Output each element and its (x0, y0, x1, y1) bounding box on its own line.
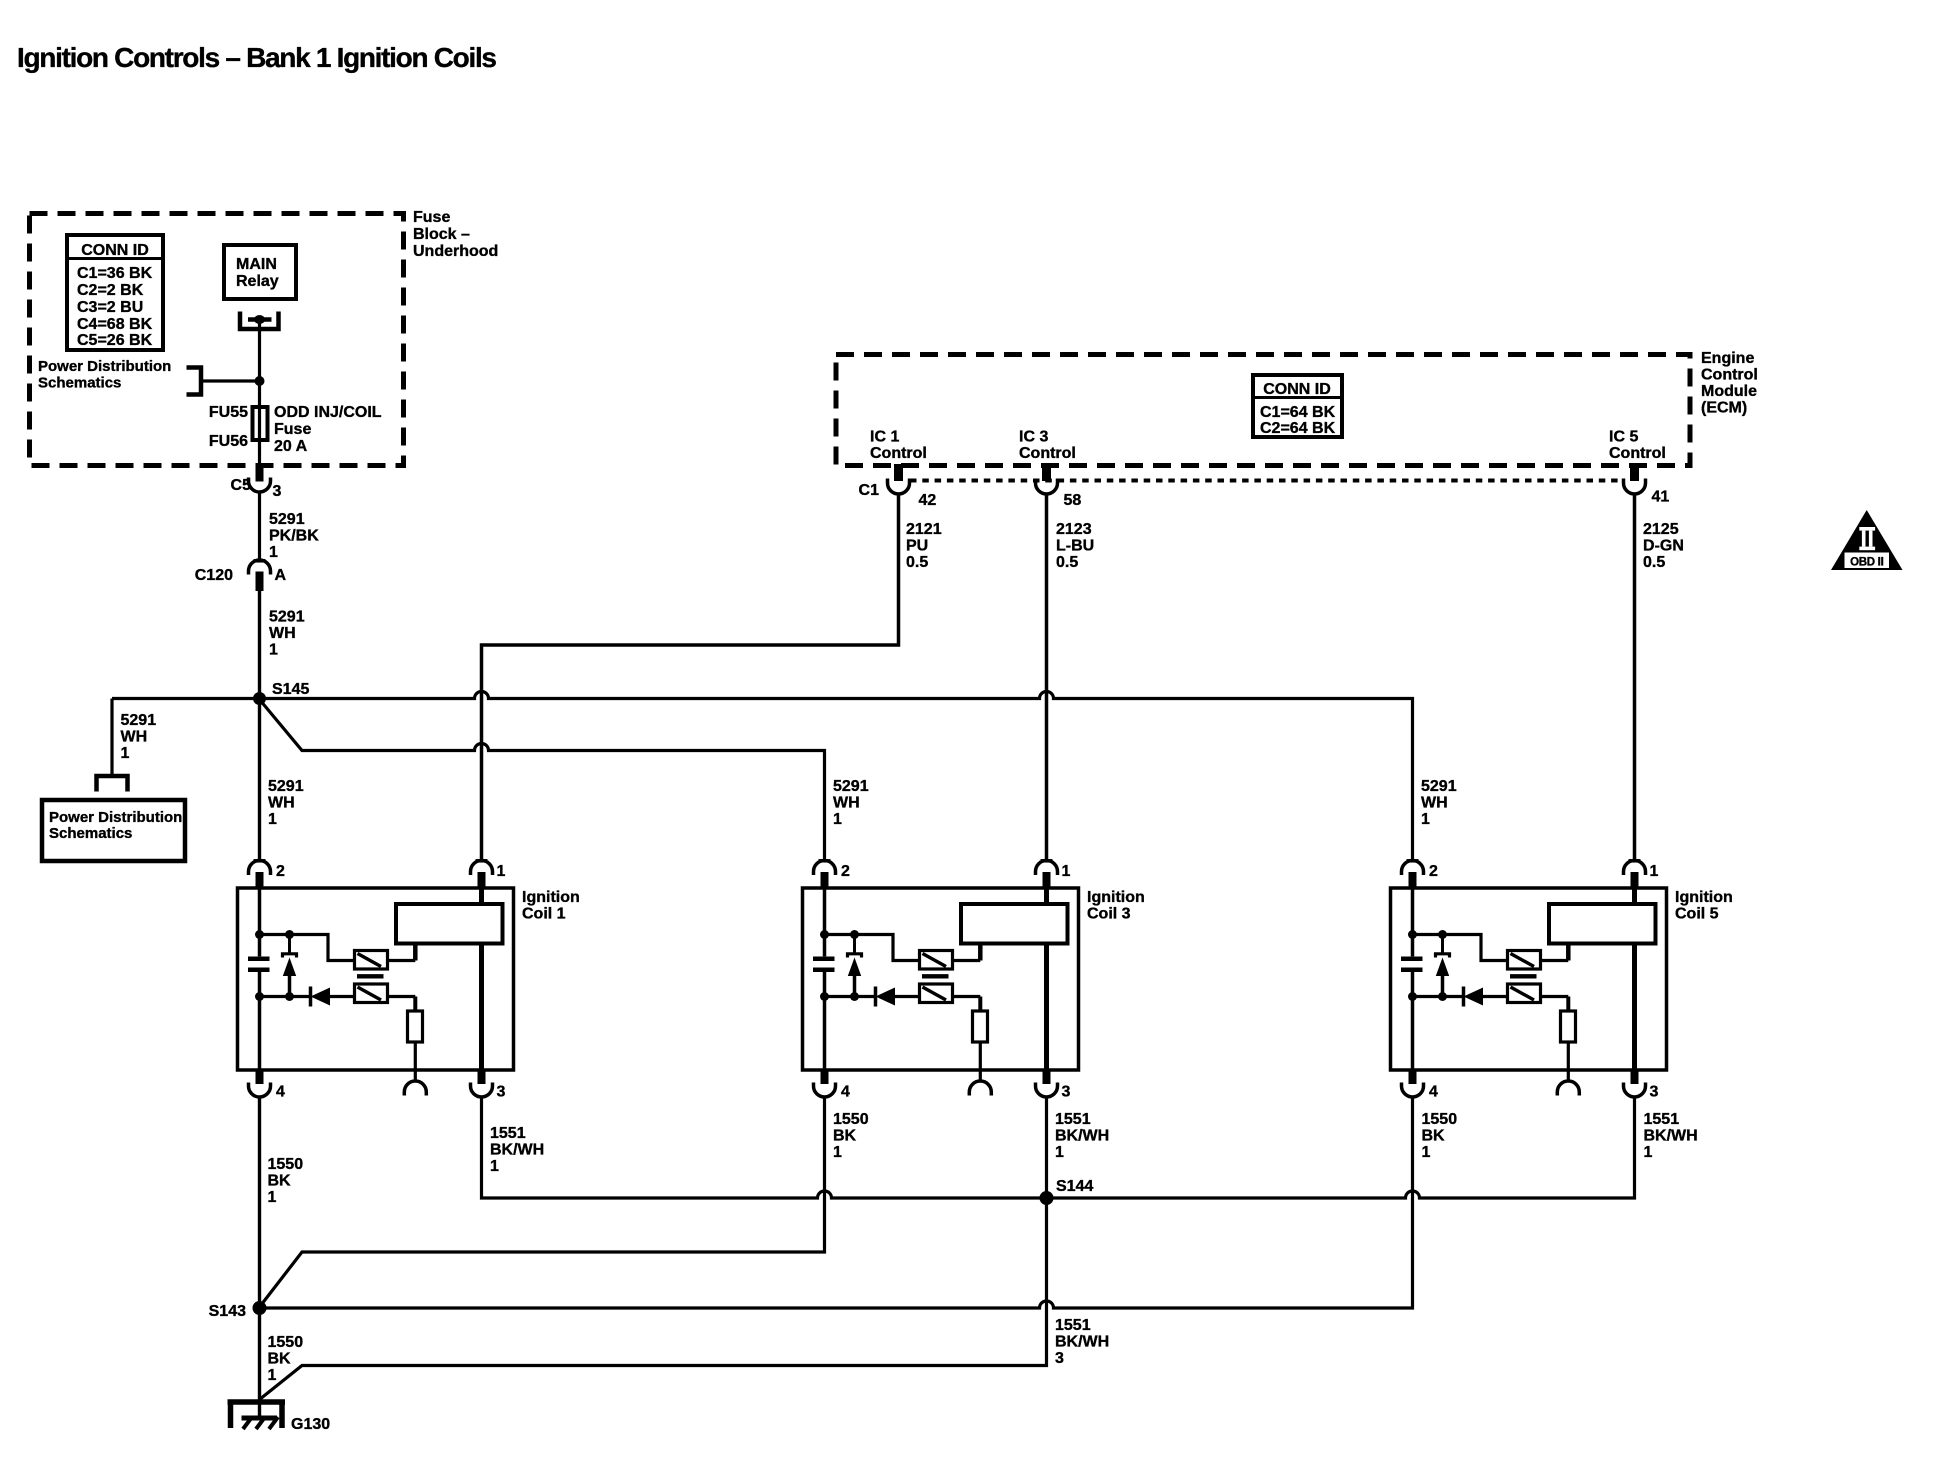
svg-text:Underhood: Underhood (413, 243, 498, 260)
svg-text:ODD INJ/COIL: ODD INJ/COIL (274, 404, 382, 421)
svg-text:2121: 2121 (906, 521, 942, 538)
svg-text:C2=64 BK: C2=64 BK (1260, 420, 1336, 437)
svg-text:D-GN: D-GN (1643, 538, 1684, 555)
svg-text:2: 2 (841, 863, 850, 880)
svg-text:5291: 5291 (833, 778, 869, 795)
svg-text:Ignition: Ignition (522, 889, 580, 906)
svg-text:Control: Control (1609, 445, 1666, 462)
svg-text:WH: WH (1421, 795, 1448, 812)
svg-text:Control: Control (870, 445, 927, 462)
svg-text:OBD II: OBD II (1850, 557, 1883, 569)
svg-text:Module: Module (1701, 383, 1757, 400)
svg-text:2123: 2123 (1056, 521, 1092, 538)
svg-text:0.5: 0.5 (906, 554, 928, 571)
svg-text:A: A (275, 567, 287, 584)
svg-text:1: 1 (268, 1189, 277, 1206)
svg-text:IC 1: IC 1 (870, 429, 899, 446)
svg-text:BK/WH: BK/WH (490, 1142, 544, 1159)
svg-text:2: 2 (1429, 863, 1438, 880)
svg-text:5291: 5291 (269, 511, 305, 528)
svg-text:FU56: FU56 (209, 433, 248, 450)
svg-text:FU55: FU55 (209, 404, 248, 421)
svg-text:PU: PU (906, 538, 928, 555)
svg-text:1: 1 (269, 544, 278, 561)
svg-text:1550: 1550 (268, 1334, 304, 1351)
svg-text:1: 1 (268, 1367, 277, 1384)
svg-text:PK/BK: PK/BK (269, 528, 319, 545)
svg-text:Ignition: Ignition (1087, 889, 1145, 906)
svg-text:42: 42 (919, 492, 937, 509)
svg-text:3: 3 (497, 1084, 506, 1101)
svg-text:Ignition Controls – Bank 1 Ign: Ignition Controls – Bank 1 Ignition Coil… (17, 42, 496, 73)
svg-text:G130: G130 (291, 1416, 330, 1433)
svg-text:0.5: 0.5 (1056, 554, 1078, 571)
svg-text:Relay: Relay (236, 273, 279, 290)
svg-text:Fuse: Fuse (413, 209, 450, 226)
svg-text:4: 4 (1429, 1084, 1438, 1101)
svg-text:4: 4 (841, 1084, 850, 1101)
svg-text:Schematics: Schematics (38, 375, 121, 392)
svg-text:1551: 1551 (1644, 1111, 1680, 1128)
svg-text:BK: BK (833, 1128, 857, 1145)
svg-text:Ignition: Ignition (1675, 889, 1733, 906)
svg-text:3: 3 (1650, 1084, 1659, 1101)
svg-text:2125: 2125 (1643, 521, 1679, 538)
svg-text:C120: C120 (195, 567, 233, 584)
svg-text:S145: S145 (272, 681, 309, 698)
svg-text:1: 1 (1422, 1144, 1431, 1161)
svg-text:WH: WH (121, 729, 148, 746)
svg-text:BK/WH: BK/WH (1055, 1128, 1109, 1145)
svg-text:1: 1 (490, 1158, 499, 1175)
svg-text:Power Distribution: Power Distribution (38, 358, 171, 375)
svg-text:1551: 1551 (1055, 1317, 1091, 1334)
svg-text:C5=26 BK: C5=26 BK (77, 332, 153, 349)
svg-text:Control: Control (1019, 445, 1076, 462)
svg-text:IC 3: IC 3 (1019, 429, 1048, 446)
svg-text:1: 1 (1421, 811, 1430, 828)
svg-text:1551: 1551 (1055, 1111, 1091, 1128)
svg-text:BK/WH: BK/WH (1055, 1334, 1109, 1351)
svg-text:1: 1 (121, 745, 130, 762)
svg-text:1551: 1551 (490, 1125, 526, 1142)
svg-text:S143: S143 (209, 1303, 246, 1320)
svg-text:(ECM): (ECM) (1701, 400, 1747, 417)
svg-text:20 A: 20 A (274, 438, 308, 455)
svg-text:S144: S144 (1056, 1178, 1093, 1195)
svg-text:3: 3 (1055, 1350, 1064, 1367)
svg-text:4: 4 (276, 1084, 285, 1101)
svg-text:Block –: Block – (413, 226, 470, 243)
svg-text:Engine: Engine (1701, 350, 1754, 367)
svg-text:Coil 1: Coil 1 (522, 906, 566, 923)
svg-text:BK: BK (268, 1351, 292, 1368)
svg-text:1550: 1550 (268, 1156, 304, 1173)
svg-text:C1=36 BK: C1=36 BK (77, 265, 153, 282)
svg-text:C5: C5 (231, 477, 252, 494)
svg-text:L-BU: L-BU (1056, 538, 1094, 555)
svg-text:0.5: 0.5 (1643, 554, 1665, 571)
svg-text:CONN ID: CONN ID (81, 242, 149, 259)
svg-text:5291: 5291 (269, 609, 305, 626)
svg-text:CONN ID: CONN ID (1263, 381, 1331, 398)
svg-text:C3=2 BU: C3=2 BU (77, 299, 143, 316)
svg-text:2: 2 (276, 863, 285, 880)
svg-text:1: 1 (833, 1144, 842, 1161)
svg-text:1: 1 (269, 642, 278, 659)
svg-text:BK/WH: BK/WH (1644, 1128, 1698, 1145)
svg-text:41: 41 (1652, 489, 1670, 506)
svg-text:1: 1 (1062, 863, 1071, 880)
svg-text:IC 5: IC 5 (1609, 429, 1638, 446)
svg-text:C1: C1 (859, 482, 880, 499)
svg-text:C4=68 BK: C4=68 BK (77, 316, 153, 333)
svg-text:1: 1 (833, 811, 842, 828)
svg-text:WH: WH (268, 795, 295, 812)
svg-text:BK: BK (1422, 1128, 1446, 1145)
svg-text:1: 1 (1650, 863, 1659, 880)
svg-text:WH: WH (269, 625, 296, 642)
svg-text:3: 3 (1062, 1084, 1071, 1101)
svg-text:58: 58 (1064, 492, 1082, 509)
svg-text:1: 1 (1055, 1144, 1064, 1161)
svg-text:MAIN: MAIN (236, 256, 277, 273)
svg-text:5291: 5291 (268, 778, 304, 795)
svg-text:C2=2 BK: C2=2 BK (77, 282, 144, 299)
svg-text:1: 1 (268, 811, 277, 828)
svg-text:Coil 5: Coil 5 (1675, 906, 1719, 923)
svg-text:Schematics: Schematics (49, 825, 132, 842)
svg-text:Power Distribution: Power Distribution (49, 809, 182, 826)
svg-text:Coil 3: Coil 3 (1087, 906, 1131, 923)
svg-text:WH: WH (833, 795, 860, 812)
svg-text:1550: 1550 (1422, 1111, 1458, 1128)
svg-text:Control: Control (1701, 367, 1758, 384)
svg-text:5291: 5291 (1421, 778, 1457, 795)
svg-text:1550: 1550 (833, 1111, 869, 1128)
svg-text:1: 1 (497, 863, 506, 880)
svg-text:1: 1 (1644, 1144, 1653, 1161)
svg-text:5291: 5291 (121, 712, 157, 729)
svg-text:Fuse: Fuse (274, 421, 311, 438)
svg-text:C1=64 BK: C1=64 BK (1260, 404, 1336, 421)
svg-text:BK: BK (268, 1173, 292, 1190)
svg-text:3: 3 (273, 483, 282, 500)
